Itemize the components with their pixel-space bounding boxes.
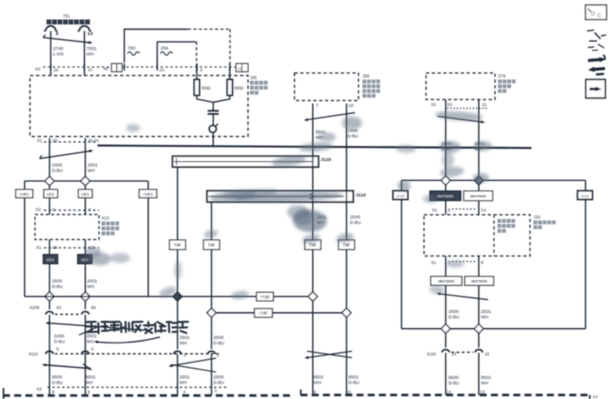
module box X51 dashed [30, 76, 248, 137]
icon legend marks [587, 30, 606, 51]
label X1 mirror bottom [431, 260, 437, 265]
svg-text:29a: 29a [161, 46, 169, 51]
svg-text:X1: X1 [37, 138, 43, 143]
svg-text:J110: J110 [356, 193, 367, 199]
label mirror inner [498, 219, 516, 233]
pin 66 [91, 305, 96, 310]
label X1 mirror top [432, 208, 438, 213]
svg-text:20: 20 [53, 138, 58, 143]
pin 64 [57, 305, 62, 310]
label X1 row [37, 138, 43, 143]
svg-text:J15: J15 [534, 215, 541, 220]
module S79 dashed box [426, 73, 495, 100]
svg-text:2500: 2500 [52, 279, 63, 284]
pin 0 [53, 207, 56, 212]
svg-text:1/2: 1/2 [593, 394, 598, 399]
stub +UE1 left [24, 181, 26, 190]
box +T4F [257, 292, 274, 301]
svg-text:D15: D15 [397, 193, 405, 198]
wire v1 seg6 [445, 353, 447, 395]
label 2500 D-BU v1 [442, 141, 453, 152]
annotation arrow 2 [79, 327, 97, 335]
label 8501 WH u1 [314, 375, 325, 386]
label 8501 WH [86, 375, 97, 386]
node diamond G [207, 308, 216, 317]
pin 12 [447, 390, 452, 395]
annotation arrow 1 [46, 322, 151, 331]
svg-text:D-BU: D-BU [214, 380, 225, 385]
splice bar J110 [207, 191, 353, 202]
svg-text:+UE1: +UE1 [19, 191, 30, 196]
box UE1 a [44, 190, 58, 198]
wire v2 seg4 [478, 285, 480, 324]
svg-text:2500: 2500 [214, 375, 225, 380]
svg-text:J59: J59 [363, 74, 370, 79]
pin 14 X110 [452, 352, 457, 357]
box T4F t1 [170, 240, 186, 250]
hook w2 X114 [81, 351, 89, 354]
wire v1 down [445, 100, 447, 177]
label X1 row2 [36, 245, 42, 250]
svg-text:WH-: WH- [314, 380, 323, 385]
pin 10 S79 [447, 102, 452, 107]
svg-text:-T4F: -T4F [259, 311, 268, 316]
mirror module dashed box [424, 215, 530, 256]
svg-text:24 2A: 24 2A [88, 138, 99, 143]
svg-text:2540: 2540 [350, 215, 361, 220]
pin 13 [480, 390, 485, 395]
svg-text:10: 10 [349, 103, 354, 108]
svg-text:11: 11 [482, 102, 487, 107]
label 1589 D-BU [348, 128, 359, 139]
connector X2 bottom dashed [48, 386, 228, 388]
svg-text:+T4F: +T4F [260, 294, 270, 299]
pin 20 [53, 138, 58, 143]
svg-text:+UE1: +UE1 [143, 191, 154, 196]
hook w1 X209 [46, 312, 54, 315]
svg-text:1E: 1E [238, 67, 243, 71]
label 2501 WH v2b [481, 309, 492, 320]
label 5501 WH [316, 130, 327, 141]
node diamond I [441, 176, 450, 185]
label 2501 WH t1 low [180, 375, 191, 386]
label 2500 D-BU a [52, 279, 63, 290]
scanner smudges [85, 110, 492, 300]
node diamond L [474, 324, 483, 333]
svg-text:S79: S79 [498, 74, 506, 79]
box D15 left [393, 191, 408, 200]
label J59 text [363, 74, 381, 98]
connector X209 dashed [55, 313, 80, 315]
wire ground bottom [402, 328, 586, 330]
svg-text:D-BU: D-BU [350, 220, 361, 225]
hook v1 X110 [442, 350, 450, 353]
svg-text:D-BU: D-BU [52, 380, 63, 385]
node diamond H [342, 308, 351, 317]
svg-text:34: 34 [54, 68, 59, 73]
box T4F u2 [339, 240, 355, 250]
svg-text:MH7WS9: MH7WS9 [438, 280, 454, 284]
svg-text:L-GN: L-GN [53, 52, 64, 57]
label 2501b [87, 334, 98, 345]
svg-text:WH: WH [481, 381, 488, 386]
box MH7WS9 b [464, 191, 493, 201]
svg-text:47: 47 [88, 68, 93, 73]
relay outline [124, 29, 230, 74]
relay box 29a [157, 42, 196, 74]
node diamond A [45, 176, 54, 185]
box UE1 dark a [43, 255, 58, 264]
svg-text:2501: 2501 [180, 335, 191, 340]
wire Y-join [197, 95, 230, 110]
stub v2 [478, 185, 480, 191]
bottom right small label [593, 394, 598, 399]
switch arrow S79 [438, 116, 486, 123]
connector mirror bottom dashed [452, 261, 476, 263]
icon DC box [586, 5, 607, 20]
wire t1 from bar [177, 167, 179, 292]
svg-text:2501: 2501 [481, 309, 492, 314]
splice bar J119 [173, 156, 319, 167]
connector S79 dotted [447, 107, 488, 109]
svg-text:2501: 2501 [88, 163, 99, 168]
svg-text:D-BU: D-BU [52, 284, 63, 289]
label X209 [30, 305, 40, 310]
wire u1 down [312, 104, 314, 292]
svg-text:MH7WS9: MH7WS9 [471, 280, 487, 284]
pin 14 mirror [481, 208, 486, 213]
box MH7WS9 c [431, 277, 462, 286]
node diamond C [45, 292, 54, 301]
svg-text:WH: WH [180, 341, 187, 346]
node diamond B [81, 176, 90, 185]
svg-text:8501: 8501 [314, 375, 325, 380]
wire v2 seg6 [478, 353, 480, 395]
pin 4b [89, 207, 92, 212]
svg-text:66: 66 [91, 305, 96, 310]
wire t2 from bar [211, 202, 213, 308]
pin tick b3 [196, 64, 198, 71]
pin tick w2 [84, 138, 86, 146]
svg-text:2501: 2501 [180, 375, 191, 380]
label 2501 WH t1 [180, 335, 191, 346]
wire +UE1L down [24, 198, 26, 297]
wire w2 seg4 [84, 315, 86, 395]
label 2501 WH v2 [475, 141, 486, 152]
box -T4F [255, 309, 273, 318]
svg-text:X1: X1 [432, 208, 438, 213]
fuse block chinese title [47, 20, 90, 25]
label 2501 WH u1 up [317, 215, 328, 226]
pin 2 [184, 353, 187, 358]
svg-text:2500: 2500 [449, 309, 460, 314]
wire t1 seg3 [177, 354, 179, 395]
box +UE1 right [139, 190, 157, 198]
svg-text:WH: WH [180, 380, 187, 385]
hook v2 X110 [475, 350, 483, 353]
receiver box X13 dashed [35, 215, 99, 240]
module J59 dashed box [295, 73, 359, 101]
box +UE1 left [16, 190, 33, 198]
svg-text:X13: X13 [102, 216, 110, 221]
svg-text:X110: X110 [427, 352, 437, 357]
wire w1 seg3 [49, 301, 51, 309]
svg-text:X2: X2 [35, 67, 41, 72]
svg-text:T4F: T4F [208, 242, 216, 247]
box T4F u1 [305, 240, 321, 250]
svg-text:8501: 8501 [86, 375, 97, 380]
label X110 [427, 352, 437, 357]
pin 15 X110 [485, 352, 490, 357]
label J15 outer [534, 215, 556, 230]
loop symbol [209, 124, 218, 133]
pin 47 [88, 68, 93, 73]
connector box right [236, 64, 248, 72]
svg-text:2501: 2501 [87, 334, 98, 339]
box UE1 b [78, 190, 92, 198]
label X13 [102, 216, 120, 236]
pin 34 [54, 68, 59, 73]
resistor R1 [194, 80, 199, 96]
box D15 right [578, 191, 593, 200]
pin tick b1 [123, 64, 125, 71]
stub D15 left [401, 180, 403, 191]
svg-text:UE1: UE1 [81, 257, 89, 262]
switch arm arrow left [40, 150, 94, 159]
switch arrow J59 [304, 113, 355, 122]
box MH7WS9 dark [430, 191, 461, 201]
main bus wire [98, 146, 532, 149]
wire v2 seg3 [478, 256, 480, 277]
svg-text:WH: WH [87, 284, 94, 289]
wire t1 seg2 [177, 301, 179, 349]
wire loop to bus [212, 133, 214, 148]
capacitor C1 [208, 111, 219, 114]
pin 12 [89, 245, 94, 250]
svg-text:10: 10 [53, 245, 58, 250]
label J25 module [250, 75, 268, 95]
wire fuse14 down [83, 31, 85, 76]
bottom module edge right [301, 390, 591, 399]
wire u2 down [346, 104, 348, 309]
pin 14 [87, 31, 93, 37]
svg-text:D15: D15 [581, 193, 589, 198]
svg-text:MH7WS9: MH7WS9 [437, 195, 453, 199]
pin 8 [52, 390, 55, 395]
label 2500 D-BU v1b [449, 309, 460, 320]
wire label 7501 WH [87, 46, 98, 57]
wire u2 seg2 [346, 317, 348, 395]
label 8500 D-BU v1 [449, 375, 460, 386]
svg-text:A8: A8 [103, 66, 109, 71]
svg-text:15: 15 [485, 352, 490, 357]
pin 5 [57, 347, 60, 352]
svg-text:14: 14 [481, 208, 486, 213]
node diamond K [441, 324, 450, 333]
wire v1 seg4 [445, 285, 447, 324]
box UE1 dark b [78, 255, 93, 264]
svg-text:WH: WH [481, 315, 488, 320]
pin tick b4 [229, 64, 231, 71]
wire t2 seg2 [211, 317, 213, 349]
wire t2 seg3 [211, 354, 213, 395]
pin 2 t2 [215, 388, 218, 393]
svg-text:C: C [598, 13, 602, 19]
ground bus left [25, 180, 149, 182]
wire +UE1R down [147, 198, 149, 297]
svg-text:64: 64 [57, 305, 62, 310]
wire w2 seg2 [84, 198, 86, 292]
svg-text:WH: WH [87, 52, 94, 57]
label X2 [35, 67, 41, 72]
pin 6 mirror [448, 208, 451, 213]
label 60ohm R1 [202, 86, 211, 91]
label 2500 D-BU t2 [214, 335, 225, 346]
pin tick w1 [49, 138, 51, 146]
svg-text:D-BU: D-BU [349, 380, 360, 385]
wire v2 seg2 [478, 201, 480, 215]
svg-text:X1: X1 [431, 260, 437, 265]
connector X2 dashed b [44, 209, 99, 211]
svg-text:2740: 2740 [53, 46, 64, 51]
switch arrow t pair [169, 358, 217, 372]
mirror module divider [493, 215, 495, 256]
svg-text:WH: WH [87, 339, 94, 344]
hook w2 X209 [81, 312, 89, 315]
wire w1 seg4 [49, 315, 51, 395]
pin 11 u2 [347, 390, 352, 395]
svg-text:780: 780 [128, 46, 136, 51]
svg-text:2501: 2501 [87, 279, 98, 284]
svg-text:X209: X209 [30, 305, 40, 310]
connector X1 dashed b [44, 247, 99, 249]
svg-text:60Ω: 60Ω [202, 86, 211, 91]
label 2501 WH [88, 163, 99, 174]
svg-text:6: 6 [56, 31, 59, 37]
svg-text:D-BU: D-BU [54, 339, 65, 344]
annotation arrow 3 [94, 337, 160, 344]
label X114 [29, 352, 39, 357]
pin 1 [217, 353, 220, 358]
label 2500 D-BU t2 low [214, 375, 225, 386]
label J119 [321, 157, 332, 163]
svg-text:T4F: T4F [174, 242, 182, 247]
wire v1 seg3 [445, 256, 447, 277]
svg-text:UE1: UE1 [82, 191, 90, 196]
svg-text:8500: 8500 [52, 375, 63, 380]
bottom module edge left [3, 388, 290, 399]
wire u1 seg2 [312, 301, 314, 395]
pin 11 S79 [482, 102, 487, 107]
switch arrow X114 pair [42, 364, 92, 371]
stub +UE1 right [147, 181, 149, 190]
wire ground right down [585, 200, 587, 329]
wire v2 down [478, 100, 480, 177]
box T4F t2 [204, 240, 220, 250]
pin tick fuse6 [50, 64, 52, 71]
svg-text:UE1: UE1 [47, 257, 55, 262]
pin 4 t1 [183, 390, 186, 395]
svg-text:J25: J25 [250, 75, 257, 80]
node diamond E filled [173, 292, 182, 301]
wire ground left down [401, 200, 403, 329]
wire v1 seg5 [445, 333, 447, 347]
wire cap down [212, 114, 214, 125]
svg-text:24: 24 [160, 68, 165, 73]
connector X110 dashed [452, 351, 474, 353]
label 8501 WH v2 [481, 375, 492, 386]
relay coil 780 [128, 46, 140, 56]
hook t2 X114 [208, 351, 216, 354]
pin 10 J59 [349, 103, 354, 108]
svg-text:D-BU: D-BU [52, 168, 63, 173]
wire label 2740 L-GN [53, 46, 64, 57]
stub UE1 a [49, 186, 51, 190]
hook t1 X114 [174, 351, 182, 354]
pin 10b [53, 245, 58, 250]
fuse F6 [44, 26, 58, 31]
splice bus line2 [25, 296, 313, 298]
pin 4 [200, 68, 203, 73]
svg-text:D-BU: D-BU [449, 381, 460, 386]
wire w1 to diamond [49, 146, 51, 177]
switch arrow mirror [437, 292, 489, 299]
wire to R2 [229, 67, 231, 80]
label X1 S79 [431, 102, 437, 107]
resistor R2 [227, 80, 232, 96]
fuse block label 751 [63, 14, 71, 19]
fuse F14 [78, 26, 92, 31]
pin tick fuse14 [83, 64, 85, 71]
pin 9 u1 [314, 390, 317, 395]
svg-text:7501: 7501 [87, 46, 98, 51]
stub UE1 b [84, 186, 86, 190]
hook w1 X114 [46, 351, 54, 354]
wire to R1 [196, 67, 198, 80]
svg-text:X2: X2 [36, 207, 42, 212]
pin 7 J59 [316, 103, 319, 108]
pin 7 mirror [448, 260, 451, 265]
svg-text:14: 14 [87, 31, 93, 37]
label 8502 D-BU u2 [349, 375, 360, 386]
node diamond D [81, 292, 90, 301]
pin 8 mirror [481, 260, 484, 265]
label X2 bottom [37, 387, 43, 392]
svg-text:D: D [591, 12, 595, 18]
connector mirror top dashed [452, 208, 476, 210]
label 2501 WH a [87, 279, 98, 290]
label 60ohm R2 [235, 86, 244, 91]
connector row X2 dashed [43, 66, 249, 68]
label 2400b [54, 334, 65, 345]
svg-text:8500: 8500 [449, 375, 460, 380]
pin tick b2 [156, 64, 158, 71]
wire fuse6 down [50, 31, 52, 76]
connector X114 dashed [55, 353, 220, 355]
label X2 row2 [36, 207, 42, 212]
svg-text:2400: 2400 [54, 334, 65, 339]
node diamond J [474, 176, 483, 185]
wire w2 seg3 [84, 301, 86, 309]
svg-text:2500: 2500 [214, 335, 225, 340]
svg-text:MH7WS9: MH7WS9 [470, 195, 486, 199]
label 8500 D-BU [52, 375, 63, 386]
pin 24 [160, 68, 165, 73]
wire w2 to diamond [84, 146, 86, 177]
connector X1 dashed [44, 141, 97, 143]
wire w1 seg2 [49, 198, 51, 292]
pin 6 [56, 31, 59, 37]
